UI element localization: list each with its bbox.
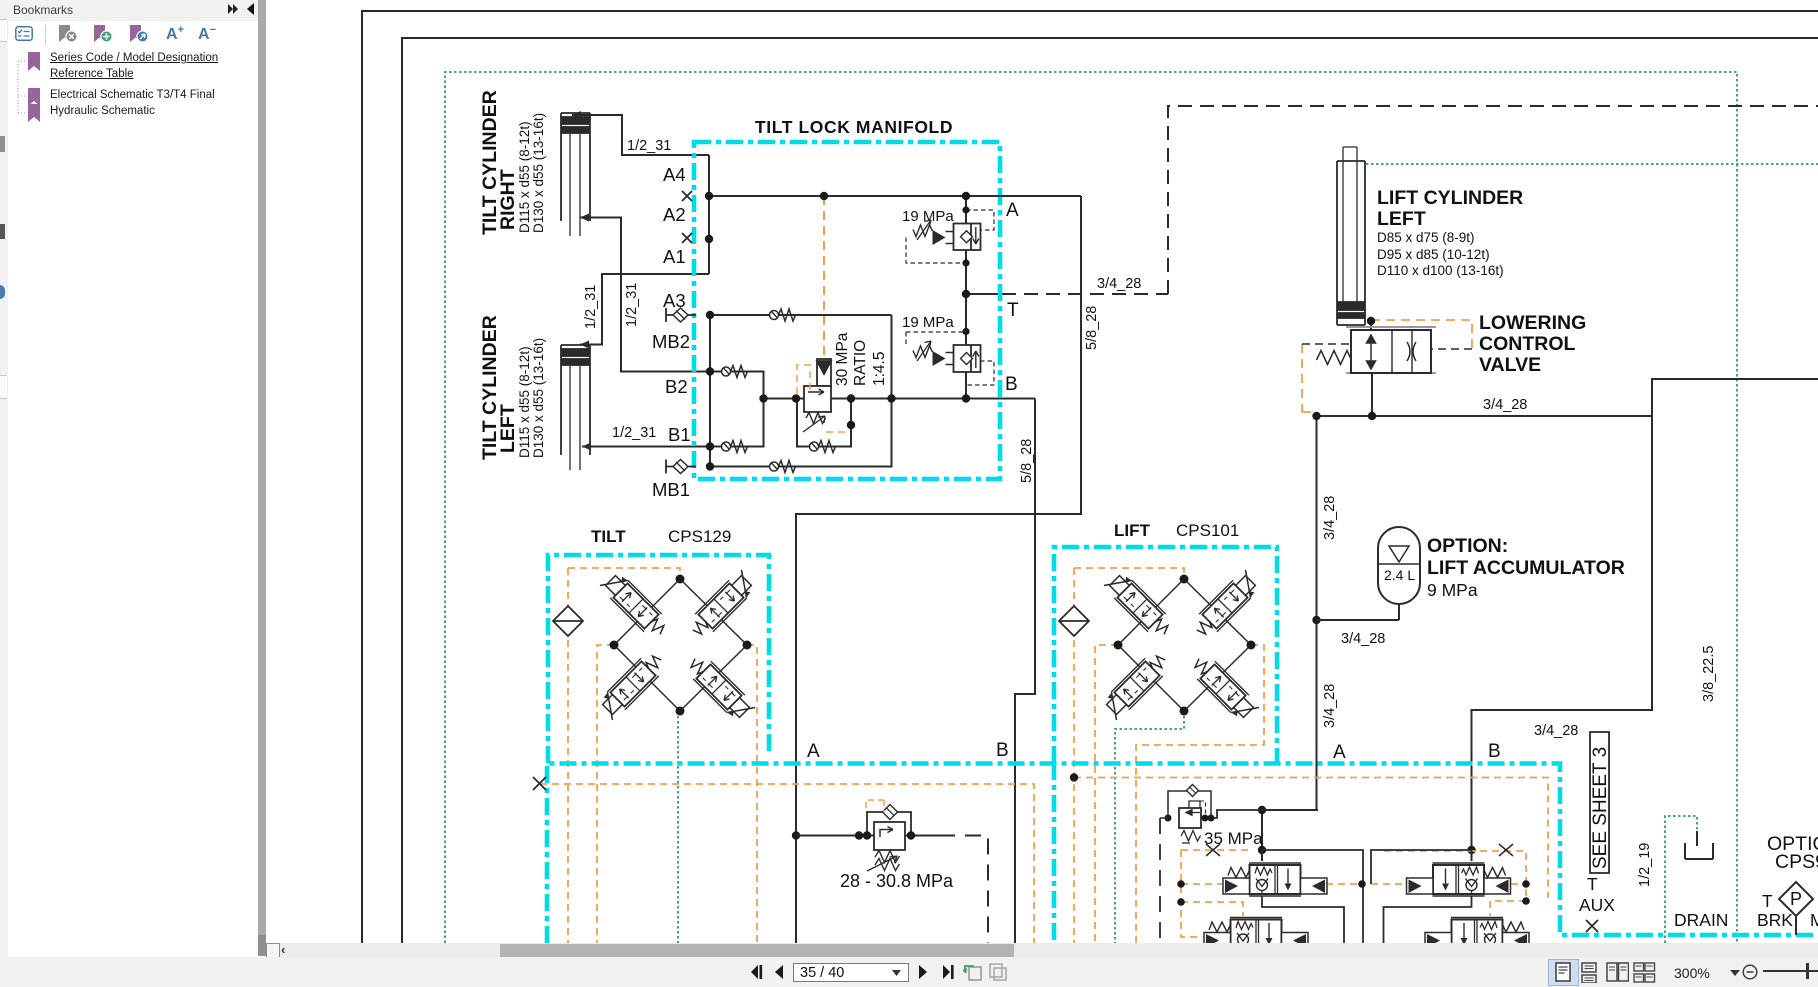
wire B exit 5/8_28 down	[1015, 399, 1035, 944]
svg-text:D85 x d75 (8-9t): D85 x d75 (8-9t)	[1377, 230, 1475, 245]
svg-text:BRK: BRK	[1757, 910, 1793, 930]
svg-text:35 MPa: 35 MPa	[1204, 829, 1263, 848]
svg-text:T: T	[1587, 874, 1598, 894]
wire 3/4_28 main line y416	[1315, 379, 1818, 416]
prev view	[963, 963, 983, 981]
svg-text:D110 x d100 (13-16t): D110 x d100 (13-16t)	[1377, 263, 1504, 278]
plug x row1 left	[1206, 844, 1220, 856]
relief valve 19 MPa lower pilot dashes	[906, 331, 966, 333]
long orange pilot line left	[540, 784, 1034, 943]
horizontal scrollbar	[266, 943, 1818, 957]
accumulator option	[1317, 527, 1421, 620]
wire: tilt left head to A3	[580, 274, 709, 345]
svg-text:9 MPa: 9 MPa	[1427, 580, 1478, 600]
svg-text:B: B	[1005, 374, 1018, 395]
LIFT proportional valve lower left	[1100, 649, 1172, 721]
relief valve 19 MPa upper pilot dashes	[966, 210, 994, 230]
svg-text:3/8_22.5: 3/8_22.5	[1701, 646, 1717, 702]
lowering control valve: cylinder to valve stub	[1371, 321, 1372, 416]
wire 35MPa to A-drop	[1201, 810, 1318, 818]
wire to B of bottom manifold	[1472, 416, 1653, 861]
junction dot cylinder port	[1367, 317, 1375, 325]
svg-text:B2: B2	[665, 376, 688, 397]
svg-text:2.4 L: 2.4 L	[1384, 567, 1415, 583]
TILT proportional valve lower right	[684, 652, 756, 724]
manifold internal A-side bus x709	[708, 155, 710, 274]
lift cylinder left symbol	[1337, 147, 1365, 325]
checkbox list icon	[15, 26, 33, 41]
prev	[772, 964, 786, 980]
drain tank symbol	[1685, 831, 1713, 859]
wire A exit down and across	[796, 196, 1081, 943]
check valve on MB1 line	[770, 461, 796, 473]
orange pilot stub on relief	[866, 800, 884, 812]
ratio valve orange pilot left box	[797, 365, 810, 396]
svg-text:19 MPa: 19 MPa	[902, 208, 954, 225]
svg-text:SEE SHEET 3: SEE SHEET 3	[1590, 747, 1611, 869]
panel hide corner controls	[266, 943, 280, 959]
wire 3/4_28 down to bottom manifold A	[1262, 416, 1317, 861]
junction dot B drop	[1467, 846, 1475, 854]
svg-text:M: M	[1810, 910, 1818, 930]
TILT CPS129 cyan box	[548, 555, 769, 763]
svg-text:AUX: AUX	[1579, 895, 1615, 915]
svg-text:T: T	[1762, 891, 1773, 911]
plug x port A2	[682, 191, 692, 201]
relief valve 19 MPa lower body	[913, 341, 981, 372]
svg-text:A2: A2	[663, 204, 686, 225]
first page	[748, 964, 765, 980]
check valve on MB2 line	[770, 309, 796, 321]
junction dots relief	[855, 831, 863, 839]
check valve on B1 line	[722, 441, 748, 453]
junction dots manifold	[705, 192, 970, 471]
next	[916, 964, 930, 980]
lowering valve pilot from cylinder (orange)	[1371, 320, 1472, 349]
relief valve 19 MPa upper body	[913, 220, 981, 250]
LIFT orange pilot rails	[1074, 568, 1184, 943]
bookmark tree	[8, 49, 258, 129]
svg-text:30 MPa: 30 MPa	[834, 332, 851, 386]
svg-text:5/8_28: 5/8_28	[1019, 439, 1035, 483]
svg-text:1/2_31: 1/2_31	[612, 425, 656, 441]
solenoid valve row1 right orange rails	[1384, 851, 1526, 916]
svg-text:3/4_28: 3/4_28	[1534, 723, 1578, 739]
tilt cylinder right symbol	[561, 113, 590, 236]
svg-text:1/2_19: 1/2_19	[1637, 843, 1653, 887]
wire MB1 line	[710, 399, 892, 467]
LIFT proportional valve lower right	[1188, 652, 1260, 724]
bottom toolbar	[0, 957, 1818, 987]
plug x T AUX	[1586, 920, 1598, 932]
svg-text:A: A	[807, 741, 820, 762]
tilt cylinder left symbol	[561, 345, 590, 470]
bookmark + plus (purple/green)	[92, 25, 114, 45]
last page	[940, 964, 957, 980]
bookmark + arrow (purple/blue)	[128, 25, 150, 45]
svg-text:LIFT: LIFT	[1114, 521, 1150, 540]
svg-text:VALVE: VALVE	[1479, 354, 1541, 376]
svg-text:LIFT ACCUMULATOR: LIFT ACCUMULATOR	[1427, 557, 1625, 579]
check valve on B2 line	[722, 366, 748, 378]
next view	[988, 963, 1008, 981]
svg-text:RIGHT: RIGHT	[497, 169, 519, 230]
svg-text:B: B	[1488, 741, 1501, 762]
svg-text:1:4.5: 1:4.5	[871, 352, 888, 386]
LIFT node dots	[1114, 575, 1256, 716]
solenoid valve row1 left orange rails	[1181, 850, 1250, 937]
ratio valve orange pilot bottom	[826, 431, 851, 433]
svg-text:D130 x d55 (13-16t): D130 x d55 (13-16t)	[531, 113, 546, 233]
svg-text:A4: A4	[663, 164, 686, 185]
SEE SHEET 3 box	[1590, 732, 1609, 873]
svg-text:RATIO: RATIO	[852, 340, 869, 386]
wire A to valve row1 left	[1262, 850, 1363, 943]
TILT node dots	[610, 575, 752, 716]
collapse icon	[246, 3, 256, 15]
junction dot A port	[792, 831, 800, 839]
svg-text:5/8_28: 5/8_28	[1084, 306, 1100, 350]
splitter	[258, 0, 266, 956]
svg-text:CPS129: CPS129	[668, 527, 731, 546]
svg-text:A: A	[1006, 200, 1019, 221]
outer page border frame	[362, 11, 1818, 943]
long orange pilot line right	[1074, 778, 1548, 899]
svg-text:A3: A3	[663, 290, 686, 311]
svg-text:DRAIN: DRAIN	[1674, 910, 1728, 930]
svg-text:D95 x d85 (10-12t): D95 x d85 (10-12t)	[1377, 247, 1490, 262]
plug x row1 right	[1499, 844, 1513, 856]
svg-text:1/2_31: 1/2_31	[583, 285, 599, 329]
wire: tilt right head to A4	[572, 115, 709, 155]
svg-text:28 - 30.8 MPa: 28 - 30.8 MPa	[840, 871, 954, 891]
TILT green drain from bottom node	[677, 711, 679, 943]
wire A to T through relief valves x966	[965, 196, 967, 294]
main relief 28-30.8 MPa assembly	[796, 805, 939, 872]
svg-text:1/2_31: 1/2_31	[627, 138, 671, 154]
plug x port A1	[682, 233, 692, 243]
svg-text:19 MPa: 19 MPa	[902, 314, 954, 331]
sidebar panel	[8, 0, 258, 957]
svg-text:CPS101: CPS101	[1176, 521, 1239, 540]
bookmark + x (gray)	[57, 25, 79, 45]
TILT proportional valve upper right	[686, 569, 758, 641]
ratio valve 30 MPa: solenoid and body	[803, 359, 831, 432]
solenoid valve row1 right	[1407, 863, 1511, 896]
lowering control valve body	[1317, 327, 1437, 373]
header	[8, 0, 258, 22]
pilot relief 35 MPa	[1168, 785, 1211, 844]
TILT orange pilot rails	[568, 568, 680, 943]
svg-text:CPS95: CPS95	[1775, 851, 1818, 873]
svg-text:3/4_28: 3/4_28	[1483, 397, 1527, 413]
A+	[166, 24, 184, 44]
A-	[198, 24, 216, 44]
left tab strip	[0, 0, 9, 957]
svg-text:D115 x d55 (8-12t): D115 x d55 (8-12t)	[517, 121, 532, 233]
drain tank green piping	[1665, 816, 1697, 943]
wire MB2 line	[710, 315, 892, 399]
P port diamond	[1779, 882, 1813, 916]
svg-text:MB1: MB1	[652, 479, 690, 500]
LIFT cyan box right edge extension below	[1052, 763, 1057, 943]
solenoid valve row2 left (clipped)	[1204, 918, 1308, 951]
page box	[793, 963, 909, 982]
svg-text:3/4_28: 3/4_28	[1322, 684, 1338, 728]
svg-text:TILT LOCK MANIFOLD: TILT LOCK MANIFOLD	[755, 117, 953, 137]
dashed continuation from relief	[939, 836, 988, 944]
svg-text:OPTION:: OPTION:	[1427, 535, 1508, 557]
TILT X bridge wires	[614, 579, 747, 711]
svg-text:D115 x d55 (8-12t): D115 x d55 (8-12t)	[517, 346, 532, 458]
manifold internal B-side bus x710	[709, 315, 711, 467]
long dash drain from 35MPa	[1159, 818, 1161, 943]
LIFT proportional valve upper right	[1190, 569, 1262, 641]
svg-text:3/4_28: 3/4_28	[1322, 496, 1338, 540]
ratio valve bypass loop with check	[797, 399, 851, 447]
wire main B bus y398.5	[764, 398, 1036, 400]
junction dots 3/4_28	[1312, 412, 1320, 420]
tilt lock manifold cyan boundary	[694, 142, 1000, 479]
dashed continuation pipe top right 3/4_28	[1168, 106, 1818, 294]
gauge port MB1 symbol	[666, 460, 673, 474]
svg-text:D130 x d55 (13-16t): D130 x d55 (13-16t)	[531, 338, 546, 458]
TILT proportional valve lower left	[596, 649, 668, 721]
wire B2 line	[710, 372, 764, 399]
svg-text:LEFT: LEFT	[497, 404, 519, 453]
solenoid valve row1 left	[1223, 863, 1327, 896]
wire row1 right to row2	[1384, 896, 1472, 943]
TILT filter	[553, 606, 583, 636]
svg-text:LOWERING: LOWERING	[1479, 312, 1586, 334]
wire T to dashed	[966, 293, 1002, 295]
svg-text:B: B	[996, 740, 1009, 761]
wire: tilt left rod to B1	[582, 446, 709, 448]
bottom manifold cyan boundary	[547, 764, 1818, 944]
wire B1 line	[710, 399, 764, 447]
solenoid valve row2 right (clipped)	[1425, 918, 1529, 951]
gauge port MB2 symbol	[666, 308, 673, 322]
dots row1 right	[1522, 880, 1530, 888]
LIFT X bridge wires	[1118, 579, 1251, 711]
svg-text:T: T	[1007, 300, 1019, 321]
LIFT green drain from bottom node	[1115, 711, 1184, 943]
wire row1 left to row2	[1262, 896, 1344, 943]
svg-text:LIFT CYLINDER: LIFT CYLINDER	[1377, 187, 1523, 209]
svg-text:TILT: TILT	[591, 527, 626, 546]
svg-text:A1: A1	[663, 246, 686, 267]
dots row1 left	[1177, 880, 1185, 888]
svg-text:3/4_28: 3/4_28	[1097, 276, 1141, 292]
TILT proportional valve upper left	[599, 569, 671, 641]
svg-text:A: A	[1333, 742, 1346, 763]
svg-text:LEFT: LEFT	[1377, 208, 1426, 230]
inner page border frame	[402, 38, 1818, 943]
layout icons	[1548, 959, 1579, 986]
LIFT proportional valve upper left	[1103, 569, 1175, 641]
expand icon	[227, 3, 241, 15]
lowering valve pilot left (orange)	[1302, 344, 1313, 412]
wire B to valve row1 right	[1371, 850, 1472, 884]
LIFT CPS101 cyan box	[1054, 547, 1277, 763]
plug x on orange line	[533, 777, 546, 790]
svg-text:3/4_28: 3/4_28	[1341, 631, 1385, 647]
orange pilot line from A to ratio valve	[823, 196, 825, 356]
wire A line y196	[709, 195, 1081, 197]
toolbar row	[8, 21, 258, 49]
svg-text:MB2: MB2	[652, 331, 690, 352]
svg-text:P: P	[1790, 889, 1802, 909]
wire: tilt right rod to B2	[580, 218, 709, 372]
35 MPa pilot dashes	[1200, 801, 1206, 817]
svg-text:B1: B1	[668, 424, 691, 445]
svg-text:1/2_31: 1/2_31	[624, 283, 640, 327]
LIFT filter	[1059, 606, 1089, 636]
svg-text:CONTROL: CONTROL	[1479, 333, 1575, 355]
green drain boundary box	[445, 72, 1737, 943]
green drain line to lift cylinder	[1366, 163, 1818, 165]
